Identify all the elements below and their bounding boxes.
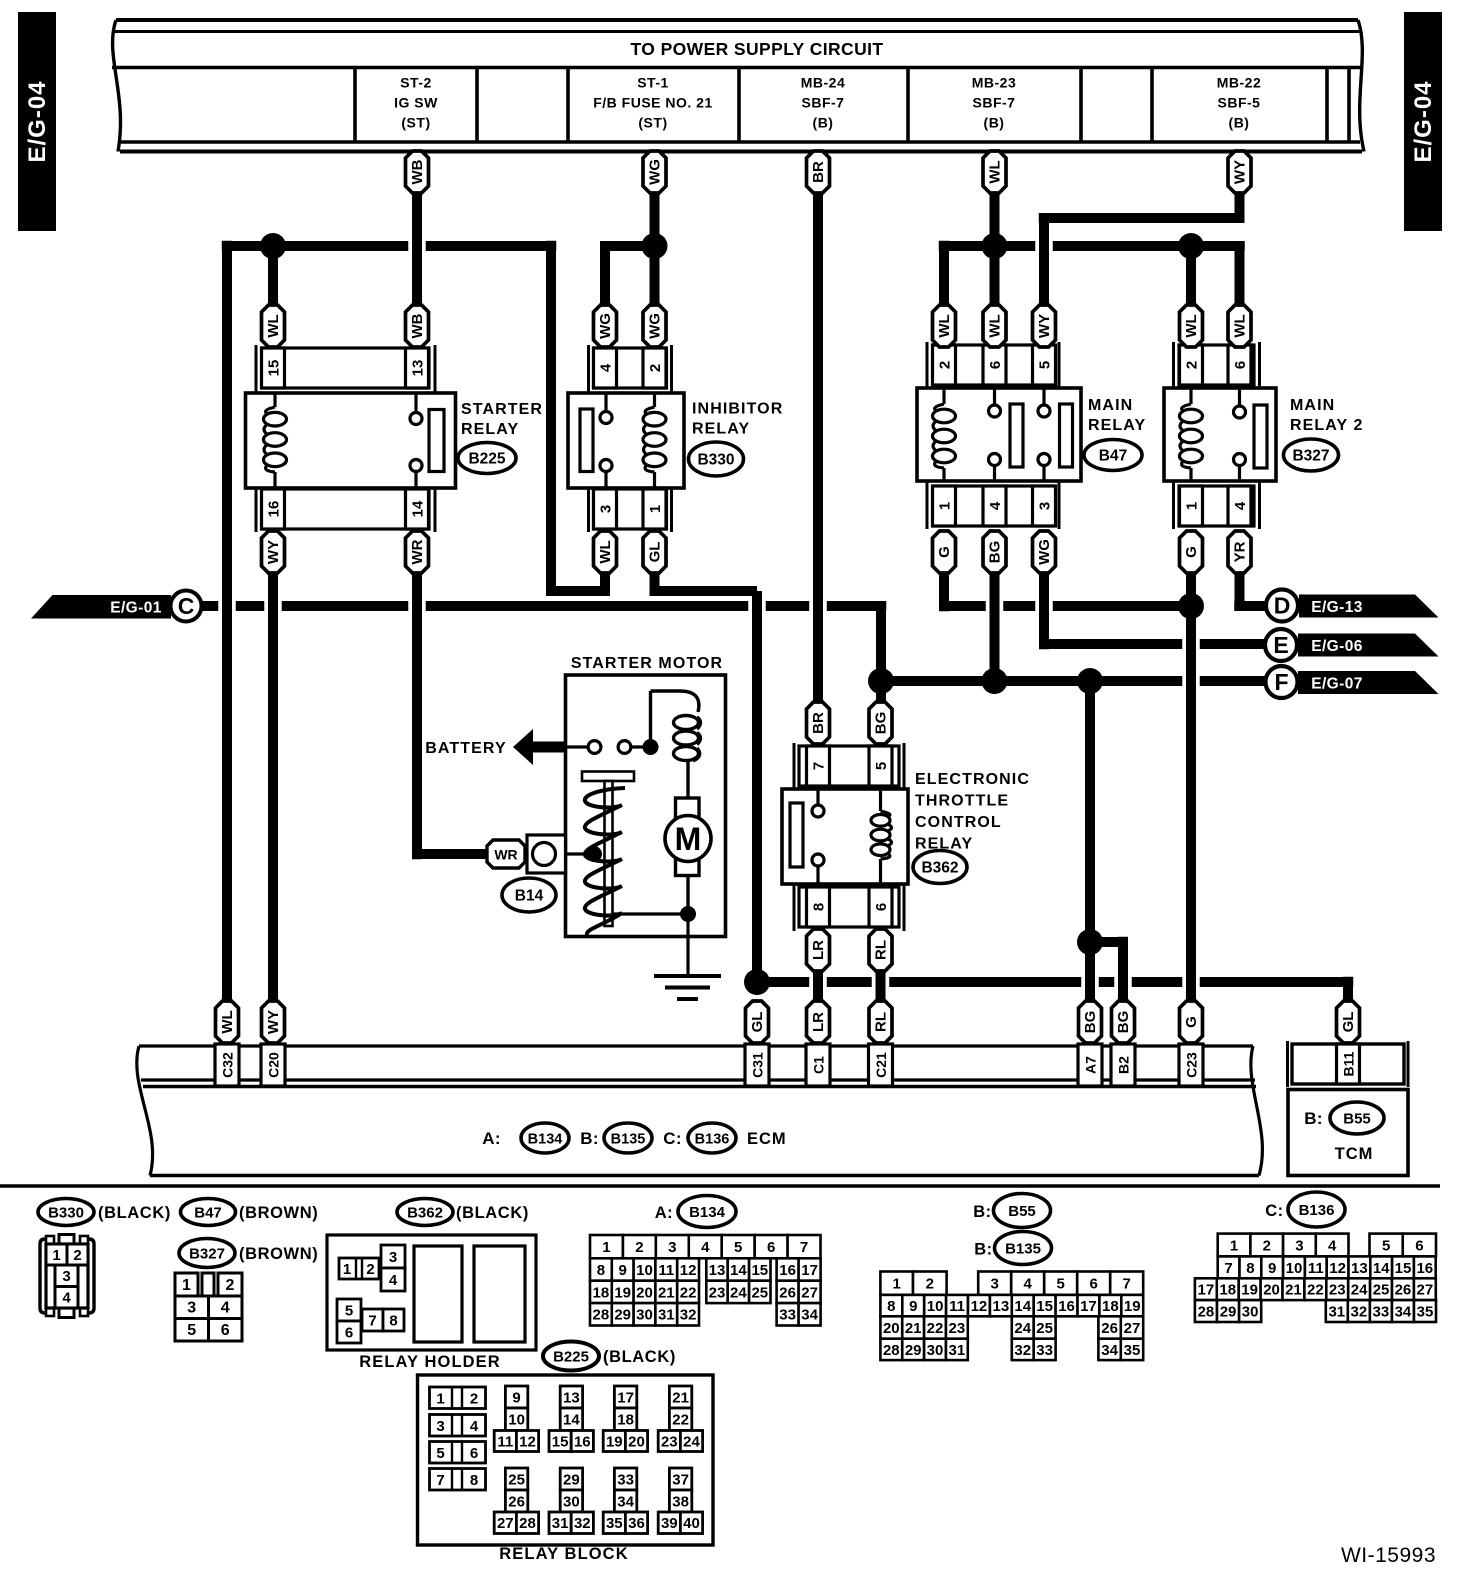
svg-text:RELAY: RELAY	[692, 421, 750, 438]
wire F E/G-07 line	[881, 676, 1182, 686]
svg-text:33: 33	[617, 1471, 634, 1488]
svg-text:1: 1	[647, 505, 664, 513]
terminal BR ETC	[807, 702, 830, 744]
svg-text:C31: C31	[749, 1052, 765, 1078]
svg-text:15: 15	[265, 360, 282, 377]
arrow E/G-06	[1298, 634, 1439, 657]
svg-text:WL: WL	[265, 314, 282, 337]
wire starter pin14 WR down and right	[412, 573, 422, 859]
ref B14	[502, 878, 556, 912]
wire main relay pin4 BG down	[990, 573, 1000, 681]
terminal BR bus	[807, 151, 830, 193]
svg-text:3: 3	[668, 1239, 676, 1256]
svg-text:ECM: ECM	[747, 1130, 787, 1148]
svg-text:B:: B:	[1304, 1109, 1323, 1128]
main relay 2 bar	[1254, 405, 1267, 468]
svg-text:4: 4	[1232, 501, 1249, 510]
svg-text:34: 34	[1395, 1303, 1412, 1320]
svg-text:WB: WB	[409, 159, 426, 184]
svg-text:40: 40	[683, 1515, 700, 1532]
ref B47	[1084, 440, 1142, 471]
svg-text:2: 2	[635, 1239, 643, 1256]
terminal GL C31	[746, 1001, 769, 1043]
pin 4	[1228, 486, 1251, 526]
main relay 2 coil	[1189, 388, 1192, 404]
svg-text:13: 13	[1351, 1260, 1368, 1277]
svg-text:A:: A:	[482, 1129, 501, 1148]
wire WL drop from bus	[990, 193, 1000, 305]
svg-text:SBF-7: SBF-7	[973, 95, 1016, 111]
starter relay B225	[256, 345, 435, 532]
plunger spring	[585, 788, 625, 935]
svg-text:10: 10	[508, 1412, 525, 1429]
svg-text:2: 2	[226, 1277, 235, 1294]
wire inhibitor pin3 WL loop	[600, 573, 610, 591]
node D	[1266, 590, 1298, 622]
svg-text:32: 32	[1351, 1303, 1368, 1320]
terminal GL B11	[1337, 1001, 1360, 1043]
inhibitor relay body	[568, 393, 684, 488]
junction GL	[744, 969, 770, 995]
svg-text:11: 11	[497, 1433, 513, 1450]
terminal WG inhibitor pin2	[643, 305, 666, 347]
svg-text:27: 27	[497, 1515, 514, 1532]
svg-text:MAIN: MAIN	[1088, 397, 1133, 414]
svg-text:ELECTRONIC: ELECTRONIC	[915, 771, 1030, 788]
ref B330	[689, 442, 744, 476]
page tag E/G-04 right	[1404, 12, 1442, 231]
pin B11	[1337, 1044, 1360, 1084]
svg-text:23: 23	[949, 1320, 966, 1337]
svg-text:B:: B:	[974, 1241, 992, 1259]
svg-text:14: 14	[409, 500, 426, 517]
svg-text:WY: WY	[1232, 160, 1249, 184]
svg-text:32: 32	[574, 1515, 591, 1532]
terminal WG main pin3	[1033, 531, 1056, 573]
motor connector	[527, 835, 566, 873]
svg-text:6: 6	[873, 903, 890, 911]
svg-text:31: 31	[552, 1515, 569, 1532]
pin 4	[983, 486, 1006, 526]
svg-text:33: 33	[779, 1307, 796, 1324]
legend B362 (BLACK)	[397, 1199, 453, 1226]
svg-text:B55: B55	[1008, 1203, 1036, 1220]
svg-text:E/G-01: E/G-01	[110, 600, 162, 617]
svg-text:31: 31	[1328, 1303, 1345, 1320]
pin C20	[261, 1044, 285, 1086]
svg-text:5: 5	[1036, 361, 1053, 369]
starter relay body	[246, 393, 456, 488]
TCM	[1288, 1041, 1409, 1176]
svg-text:12: 12	[971, 1298, 988, 1315]
svg-text:1: 1	[893, 1276, 901, 1293]
arrow E/G-01	[31, 595, 171, 619]
svg-text:4: 4	[987, 501, 1004, 510]
svg-text:12: 12	[519, 1433, 536, 1450]
svg-text:29: 29	[905, 1342, 922, 1359]
svg-text:32: 32	[1014, 1342, 1031, 1359]
pin C32	[215, 1044, 239, 1086]
terminal G main pin1	[933, 531, 956, 573]
ETC relay body	[782, 789, 908, 884]
terminal WL C32	[216, 1001, 239, 1043]
svg-text:6: 6	[987, 361, 1004, 369]
svg-text:C20: C20	[265, 1052, 281, 1078]
svg-text:12: 12	[680, 1262, 697, 1279]
relay block B225 drawing	[418, 1375, 714, 1545]
svg-text:8: 8	[597, 1262, 605, 1279]
svg-text:29: 29	[563, 1471, 580, 1488]
svg-text:WL: WL	[987, 314, 1004, 337]
legend B327 (BROWN)	[179, 1239, 235, 1268]
svg-text:7: 7	[436, 1472, 444, 1489]
svg-text:5: 5	[1057, 1276, 1065, 1293]
svg-text:2: 2	[647, 364, 664, 372]
terminal RL ETC	[869, 929, 892, 971]
terminal WL starter	[262, 305, 285, 347]
pin C31	[745, 1044, 769, 1086]
svg-text:4: 4	[597, 363, 614, 372]
svg-text:(B): (B)	[813, 115, 834, 131]
terminal WL main2 pin6	[1228, 305, 1251, 347]
ECM connector strip	[137, 1046, 1263, 1176]
svg-text:E/G-04: E/G-04	[1410, 80, 1437, 162]
svg-text:(BROWN): (BROWN)	[239, 1204, 318, 1222]
svg-text:RELAY: RELAY	[461, 421, 519, 438]
pin 13	[406, 348, 429, 388]
pin C21	[869, 1044, 893, 1086]
pin 3	[1033, 486, 1056, 526]
wire GL horizontal to TCM	[757, 977, 809, 987]
svg-text:B:: B:	[580, 1129, 599, 1148]
terminal WL bus	[983, 151, 1006, 193]
svg-text:G: G	[1183, 1016, 1200, 1028]
svg-text:21: 21	[658, 1284, 675, 1301]
svg-text:WL: WL	[936, 314, 953, 337]
svg-text:B330: B330	[48, 1204, 84, 1221]
svg-text:34: 34	[1101, 1342, 1118, 1359]
svg-text:7: 7	[810, 762, 827, 770]
svg-text:8: 8	[810, 903, 827, 911]
svg-text:F: F	[1274, 669, 1288, 695]
svg-text:1: 1	[182, 1277, 191, 1294]
svg-text:22: 22	[927, 1320, 944, 1337]
svg-text:C:: C:	[1265, 1202, 1283, 1220]
svg-text:24: 24	[1014, 1320, 1031, 1337]
svg-text:BG: BG	[1115, 1011, 1132, 1034]
starter motor switch contacts	[566, 745, 588, 748]
svg-text:CONTROL: CONTROL	[915, 814, 1002, 831]
svg-text:(ST): (ST)	[638, 115, 667, 131]
svg-text:2: 2	[926, 1276, 934, 1293]
starter relay contacts	[414, 393, 417, 413]
svg-text:RELAY BLOCK: RELAY BLOCK	[499, 1545, 628, 1563]
svg-text:35: 35	[606, 1515, 623, 1532]
power supply bus	[112, 20, 1364, 152]
svg-text:WG: WG	[647, 313, 664, 339]
svg-text:3: 3	[991, 1276, 999, 1293]
junction WL main relay	[982, 233, 1008, 259]
svg-text:28: 28	[593, 1307, 610, 1324]
svg-text:10: 10	[636, 1262, 653, 1279]
svg-text:25: 25	[1373, 1282, 1390, 1299]
svg-text:2: 2	[1183, 361, 1200, 369]
svg-text:GL: GL	[647, 542, 664, 563]
svg-text:32: 32	[680, 1307, 697, 1324]
svg-text:B14: B14	[515, 887, 544, 904]
svg-text:37: 37	[672, 1471, 689, 1488]
svg-text:7: 7	[1224, 1260, 1232, 1277]
svg-text:MAIN: MAIN	[1290, 397, 1335, 414]
section divider	[0, 1184, 1440, 1188]
terminal YR main2 pin4	[1228, 531, 1251, 573]
svg-text:7: 7	[368, 1312, 376, 1329]
svg-text:4: 4	[221, 1300, 230, 1317]
starter relay contact bar	[429, 410, 444, 472]
svg-text:36: 36	[628, 1515, 645, 1532]
svg-text:11: 11	[949, 1298, 965, 1315]
inhibitor relay B330	[589, 345, 672, 532]
svg-text:3: 3	[1295, 1237, 1303, 1254]
svg-text:A:: A:	[655, 1204, 673, 1222]
svg-text:BR: BR	[810, 161, 827, 183]
svg-text:B362: B362	[921, 859, 958, 876]
svg-text:C:: C:	[663, 1129, 682, 1148]
pin 15	[262, 348, 285, 388]
svg-text:3: 3	[187, 1300, 196, 1317]
svg-text:8: 8	[1246, 1260, 1254, 1277]
svg-text:WB: WB	[409, 313, 426, 338]
svg-text:1: 1	[602, 1239, 610, 1256]
svg-text:(B): (B)	[984, 115, 1005, 131]
inhibitor contacts	[604, 393, 607, 412]
wire ETC pin6 RL down to C21	[876, 971, 886, 1002]
svg-text:19: 19	[606, 1433, 623, 1450]
svg-text:WL: WL	[1232, 314, 1249, 337]
svg-text:10: 10	[1286, 1260, 1303, 1277]
wire WG drop from bus	[650, 193, 660, 305]
plunger	[582, 772, 634, 782]
wire MB-23 branch horizontal	[939, 241, 1036, 251]
svg-text:WR: WR	[409, 539, 426, 564]
svg-text:B135: B135	[1005, 1240, 1041, 1257]
svg-text:4: 4	[389, 1272, 398, 1289]
pin 2	[643, 348, 666, 388]
starter motor box	[566, 675, 726, 937]
main relay 2 B327	[1174, 342, 1260, 529]
main relay 2 contacts	[1238, 388, 1241, 406]
svg-text:ST-2: ST-2	[400, 75, 432, 91]
svg-text:16: 16	[1416, 1260, 1433, 1277]
svg-text:29: 29	[614, 1307, 631, 1324]
svg-text:E/G-13: E/G-13	[1311, 599, 1363, 616]
svg-text:34: 34	[617, 1493, 634, 1510]
svg-text:25: 25	[1036, 1320, 1053, 1337]
svg-text:1: 1	[436, 1390, 444, 1407]
svg-text:5: 5	[187, 1322, 196, 1339]
svg-text:4: 4	[1024, 1276, 1033, 1293]
pin 5	[869, 746, 892, 786]
svg-text:20: 20	[628, 1433, 645, 1450]
svg-text:14: 14	[730, 1262, 747, 1279]
svg-text:27: 27	[1417, 1282, 1434, 1299]
svg-text:B327: B327	[189, 1245, 225, 1262]
svg-text:3: 3	[62, 1268, 70, 1285]
svg-text:B362: B362	[407, 1204, 443, 1221]
svg-text:GL: GL	[749, 1012, 766, 1033]
svg-text:THROTTLE: THROTTLE	[915, 793, 1009, 810]
svg-text:8: 8	[470, 1472, 478, 1489]
svg-text:33: 33	[1036, 1342, 1053, 1359]
svg-text:34: 34	[801, 1307, 818, 1324]
junction D line	[1178, 593, 1204, 619]
pin B2	[1111, 1044, 1135, 1086]
node E	[1265, 629, 1297, 661]
terminal WB starter	[406, 305, 429, 347]
pin 6	[983, 345, 1006, 385]
svg-text:15: 15	[1395, 1260, 1412, 1277]
pin C1	[806, 1044, 830, 1086]
terminal WR motor	[487, 840, 525, 868]
svg-text:28: 28	[519, 1515, 536, 1532]
svg-text:4: 4	[62, 1290, 71, 1307]
svg-text:26: 26	[779, 1284, 796, 1301]
svg-text:15: 15	[552, 1433, 569, 1450]
svg-text:B47: B47	[1099, 447, 1127, 464]
svg-text:7: 7	[1123, 1276, 1131, 1293]
svg-text:M: M	[675, 821, 702, 857]
svg-text:35: 35	[1417, 1303, 1434, 1320]
svg-text:BG: BG	[1082, 1011, 1099, 1034]
svg-text:BG: BG	[987, 541, 1004, 564]
svg-text:(ST): (ST)	[401, 115, 430, 131]
svg-text:6: 6	[1415, 1237, 1423, 1254]
svg-text:SBF-7: SBF-7	[802, 95, 845, 111]
svg-text:6: 6	[470, 1445, 478, 1462]
svg-text:C23: C23	[1183, 1052, 1199, 1078]
svg-text:B327: B327	[1292, 447, 1329, 464]
svg-text:30: 30	[1242, 1303, 1259, 1320]
arrow E/G-07	[1298, 671, 1439, 694]
main relay B47	[927, 342, 1059, 529]
svg-text:3: 3	[389, 1249, 397, 1266]
pin 7	[807, 746, 830, 786]
terminal BG A7	[1079, 1001, 1102, 1043]
pin 14	[406, 489, 429, 529]
svg-text:RELAY HOLDER: RELAY HOLDER	[359, 1353, 501, 1371]
ref B362	[913, 851, 967, 884]
junction top-left	[260, 233, 286, 259]
svg-text:B225: B225	[553, 1348, 589, 1365]
svg-text:8: 8	[389, 1312, 397, 1329]
svg-text:26: 26	[508, 1493, 525, 1510]
svg-text:WR: WR	[494, 847, 517, 863]
svg-text:WI-15993: WI-15993	[1341, 1544, 1436, 1567]
svg-text:WL: WL	[1183, 314, 1200, 337]
svg-text:1: 1	[1230, 1237, 1238, 1254]
svg-text:6: 6	[1232, 361, 1249, 369]
svg-text:(BLACK): (BLACK)	[456, 1204, 529, 1222]
svg-text:17: 17	[801, 1262, 818, 1279]
wire inhibitor pin1 GL to C31/TCM	[650, 573, 660, 596]
svg-text:24: 24	[730, 1284, 747, 1301]
svg-text:B11: B11	[1340, 1051, 1356, 1076]
svg-text:29: 29	[1220, 1303, 1237, 1320]
svg-text:33: 33	[1373, 1303, 1390, 1320]
terminal WL main pin2	[933, 305, 956, 347]
svg-text:15: 15	[1036, 1298, 1053, 1315]
pin 1	[933, 486, 956, 526]
svg-text:G: G	[936, 546, 953, 558]
svg-text:BG: BG	[873, 712, 890, 735]
electronic throttle control relay B362	[794, 743, 904, 931]
junction F BG	[982, 668, 1008, 694]
svg-text:13: 13	[709, 1262, 726, 1279]
connector grid C B136	[1195, 1234, 1436, 1322]
svg-text:E/G-06: E/G-06	[1311, 638, 1363, 655]
svg-text:20: 20	[636, 1284, 653, 1301]
svg-text:LR: LR	[810, 1012, 827, 1032]
svg-text:28: 28	[883, 1342, 900, 1359]
svg-text:17: 17	[1198, 1282, 1215, 1299]
svg-text:25: 25	[751, 1284, 768, 1301]
svg-text:TO POWER SUPPLY CIRCUIT: TO POWER SUPPLY CIRCUIT	[631, 39, 884, 59]
arrow E/G-13	[1299, 595, 1439, 618]
svg-text:38: 38	[672, 1493, 689, 1510]
wire main relay pin3 WG to E line	[1039, 573, 1049, 649]
svg-text:B135: B135	[611, 1131, 646, 1147]
svg-text:3: 3	[1036, 502, 1053, 510]
svg-text:C1: C1	[810, 1056, 826, 1074]
svg-text:18: 18	[617, 1412, 634, 1429]
junction in starter motor	[643, 739, 659, 755]
svg-text:2: 2	[936, 361, 953, 369]
legend B47 (BROWN)	[181, 1199, 236, 1226]
svg-text:WY: WY	[265, 540, 282, 564]
svg-text:WY: WY	[1036, 314, 1053, 338]
battery arrow	[513, 729, 533, 765]
svg-text:ST-1: ST-1	[637, 75, 669, 91]
connector grid A B134	[590, 1235, 821, 1326]
svg-text:RELAY: RELAY	[1088, 417, 1146, 434]
svg-text:MB-23: MB-23	[972, 75, 1017, 91]
svg-text:18: 18	[1102, 1298, 1119, 1315]
terminal LR C1	[807, 1001, 830, 1043]
connector B330 drawing	[40, 1235, 94, 1318]
terminal WL inhibitor pin3	[594, 531, 617, 573]
svg-text:22: 22	[1307, 1282, 1324, 1299]
svg-text:31: 31	[949, 1342, 966, 1359]
svg-text:F/B FUSE NO. 21: F/B FUSE NO. 21	[593, 95, 713, 111]
ETC coil	[879, 789, 882, 811]
pin 1	[643, 489, 666, 529]
pin 3	[594, 489, 617, 529]
svg-text:5: 5	[873, 762, 890, 770]
svg-text:C32: C32	[219, 1052, 235, 1078]
svg-text:1: 1	[1183, 502, 1200, 510]
main relay coil	[942, 388, 945, 404]
svg-text:G: G	[1183, 546, 1200, 558]
svg-text:WL: WL	[219, 1010, 236, 1033]
svg-text:17: 17	[1080, 1298, 1097, 1315]
junction below M	[680, 906, 696, 922]
svg-text:25: 25	[508, 1471, 525, 1488]
svg-text:B134: B134	[689, 1204, 726, 1221]
svg-text:IG SW: IG SW	[394, 95, 438, 111]
svg-text:17: 17	[617, 1389, 634, 1406]
wire main relay pin1 G to D line	[939, 573, 949, 611]
svg-text:12: 12	[1329, 1260, 1346, 1277]
